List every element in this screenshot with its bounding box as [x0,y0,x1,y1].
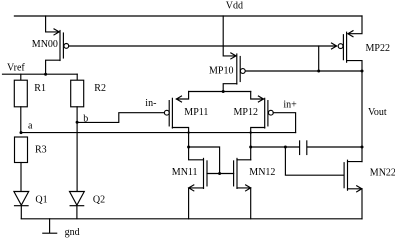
svg-text:Q2: Q2 [93,194,105,205]
wire first stage output to cap [251,146,299,148]
resistor R3 [15,137,28,192]
diode Q1 [14,192,29,219]
svg-text:MP12: MP12 [234,107,258,118]
wire diff pair common source [189,91,251,93]
junction dot node a [20,131,23,134]
svg-text:R1: R1 [34,83,46,94]
wire node b to in- [77,113,164,123]
node a wire to in+ [21,132,296,134]
gate bias wire (MN00 gate to MP22 gate) [69,45,337,47]
svg-text:MP22: MP22 [366,43,390,54]
svg-text:a: a [28,120,33,131]
junction dot MN00 source on Vref [44,73,47,76]
wire MN11 drain to gates [189,147,220,174]
transistor MP11 [164,92,188,148]
junction dot at Vout vertical [361,70,364,73]
resistor R2 [71,74,84,191]
svg-text:MN12: MN12 [249,167,275,178]
transistor MN12 [234,158,251,218]
resistor R1 [14,74,27,132]
diode Q2 [70,192,85,219]
svg-text:MN11: MN11 [172,167,198,178]
small dot crossing a-line MP11 drain [187,131,189,133]
svg-text:Q1: Q1 [35,194,47,205]
Vdd rail wire [14,15,362,17]
wire MP10 gate line [245,70,362,72]
svg-text:in+: in+ [283,100,297,111]
junction dot MP10 source [222,90,225,93]
svg-text:Vout: Vout [368,107,387,118]
junction dot gates [218,172,221,175]
svg-text:in-: in- [145,98,156,109]
Vout net wire [361,71,363,162]
junction dot MN11 drain node [187,146,190,149]
svg-text:Vdd: Vdd [226,1,243,12]
svg-text:MN22: MN22 [370,167,395,178]
ground rail wire [21,218,362,220]
wire in+ to node a [273,113,295,133]
capacitor C1 [300,141,362,155]
transistor MP10 [223,16,245,92]
svg-text:Vref: Vref [7,63,25,74]
svg-text:MN00: MN00 [32,39,58,50]
junction dot cap to Vout [361,146,364,149]
transistor MN00 [46,16,69,74]
junction dot bias T [317,70,320,73]
small dot crossing a-line MP12 drain [250,131,252,133]
Vref node wire [3,73,78,75]
junction dot cap tap [284,146,287,149]
svg-text:MP10: MP10 [209,65,233,76]
svg-text:gnd: gnd [65,227,80,238]
transistor MP22 [338,16,362,71]
svg-text:R2: R2 [94,83,106,94]
transistor MN11 [189,147,234,219]
ground symbol [43,219,57,233]
junction dot MN12 drain node [249,146,252,149]
svg-text:MP11: MP11 [184,107,208,118]
wire vertical bias jog [318,46,320,71]
transistor MP12 [251,92,274,160]
arrow into MP22 gate [332,43,337,49]
svg-text:R3: R3 [35,145,47,156]
junction dot node b [76,121,79,124]
wire MN22 gate [285,147,343,175]
transistor MN22 [344,160,362,219]
